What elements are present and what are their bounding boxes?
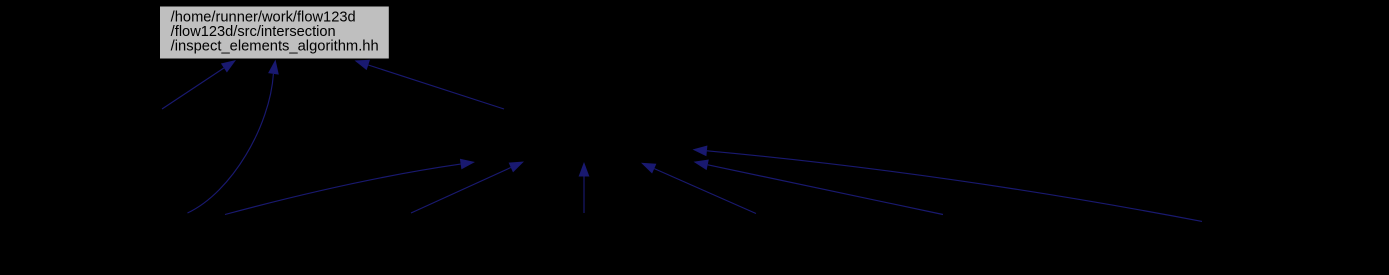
svg-text:/inspect_elements_algorithm.hh: /inspect_elements_algorithm.hh: [171, 38, 379, 54]
